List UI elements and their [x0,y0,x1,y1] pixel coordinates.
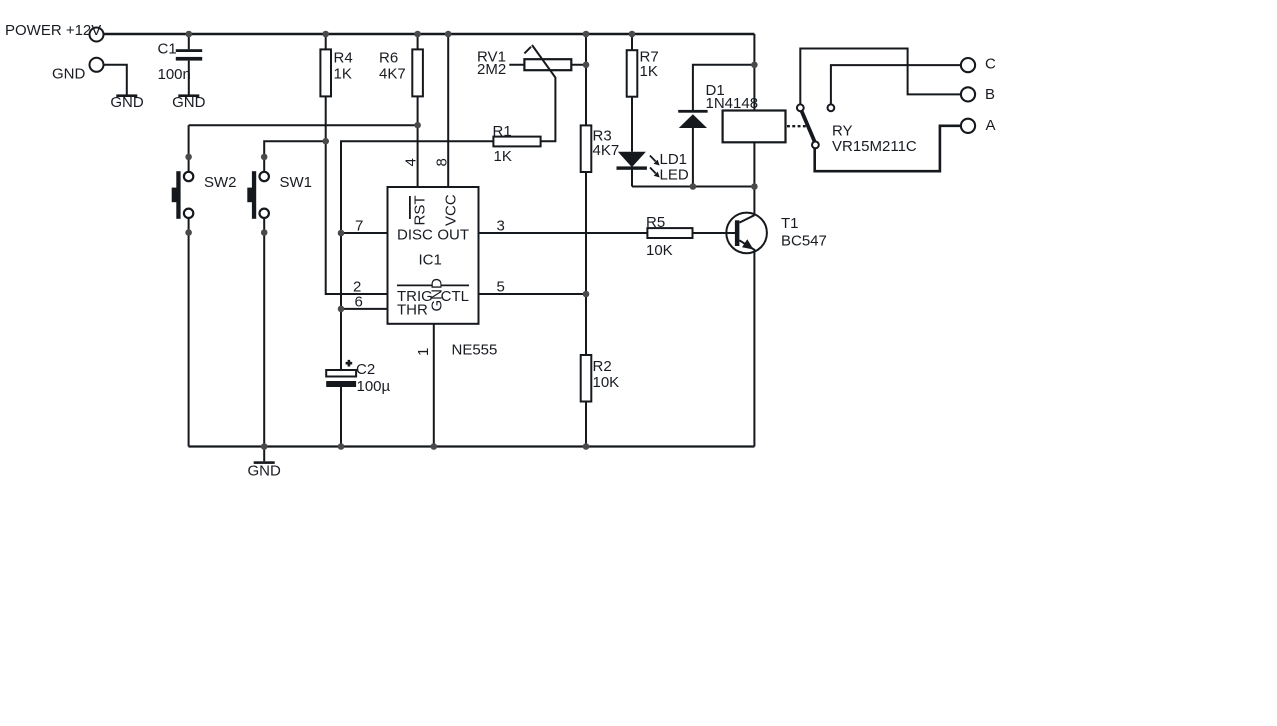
svg-text:3: 3 [497,218,505,235]
svg-text:C1: C1 [158,41,177,58]
svg-text:R6: R6 [379,50,398,67]
svg-text:100µ: 100µ [357,378,391,395]
svg-text:GND: GND [248,463,282,480]
svg-text:GND: GND [429,278,446,312]
svg-text:LED: LED [660,167,689,184]
svg-text:R4: R4 [334,50,353,67]
svg-text:BC547: BC547 [781,233,827,250]
svg-text:SW1: SW1 [280,174,313,191]
svg-text:5: 5 [497,279,505,296]
svg-text:R1: R1 [493,123,512,140]
svg-text:1N4148: 1N4148 [706,95,759,112]
svg-text:NE555: NE555 [452,342,498,359]
svg-text:4K7: 4K7 [593,142,620,159]
svg-text:RST: RST [412,196,429,226]
svg-text:POWER +12V: POWER +12V [5,22,101,39]
svg-text:7: 7 [355,218,363,235]
svg-text:2M2: 2M2 [477,61,506,78]
svg-text:IC1: IC1 [419,252,442,269]
svg-text:6: 6 [355,294,363,311]
svg-text:RY: RY [832,123,853,140]
svg-text:GND: GND [172,94,206,111]
svg-text:B: B [985,86,995,103]
svg-text:100n: 100n [158,66,191,83]
svg-text:GND: GND [110,94,144,111]
svg-text:THR: THR [397,302,428,319]
svg-text:R5: R5 [646,214,665,231]
svg-text:GND: GND [52,66,86,83]
svg-text:DISC: DISC [397,227,433,244]
svg-text:1K: 1K [494,148,512,165]
svg-text:A: A [986,117,996,134]
svg-text:10K: 10K [646,242,673,259]
svg-text:C: C [985,56,996,73]
svg-text:R2: R2 [593,358,612,375]
svg-text:1K: 1K [640,63,658,80]
svg-text:VR15M211C: VR15M211C [832,138,917,155]
svg-text:10K: 10K [593,374,620,391]
svg-text:4: 4 [403,158,420,166]
svg-text:OUT: OUT [437,227,469,244]
svg-text:SW2: SW2 [204,174,237,191]
svg-text:C2: C2 [356,361,375,378]
svg-text:4K7: 4K7 [379,66,406,83]
svg-text:VCC: VCC [443,194,460,226]
svg-text:8: 8 [434,158,451,166]
svg-text:T1: T1 [781,215,799,232]
svg-text:1: 1 [415,348,432,356]
svg-text:LD1: LD1 [660,151,688,168]
svg-text:1K: 1K [334,66,352,83]
